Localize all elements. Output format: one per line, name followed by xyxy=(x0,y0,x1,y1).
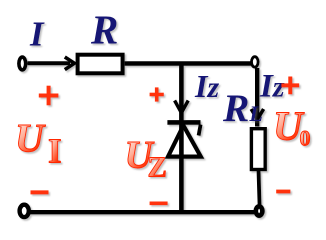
plus sign middle xyxy=(150,93,164,97)
current arrow I shaft xyxy=(28,61,71,65)
zener diode D triangle xyxy=(168,126,201,157)
svg-text:0: 0 xyxy=(300,126,311,151)
minus sign right xyxy=(276,190,290,194)
current arrow I head xyxy=(65,57,75,70)
resistor R box xyxy=(78,55,123,74)
plus sign right xyxy=(281,83,299,87)
zener bar tail xyxy=(199,125,201,136)
svg-text:I: I xyxy=(29,15,45,54)
svg-text:Z: Z xyxy=(148,151,167,183)
zener cathode bar xyxy=(167,120,200,125)
node bottom-right xyxy=(256,206,263,215)
plus sign left xyxy=(39,94,59,98)
current arrow Iz head (zener branch) xyxy=(175,101,189,113)
output terminal bottom-left xyxy=(20,205,29,217)
wire right branch vertical xyxy=(255,68,259,127)
wire RL to bottom node xyxy=(259,171,260,207)
svg-text:I: I xyxy=(48,132,62,171)
input terminal top-left xyxy=(19,57,26,70)
svg-text:U: U xyxy=(15,116,46,161)
svg-text:Iz: Iz xyxy=(259,69,285,105)
wire bottom xyxy=(30,210,255,214)
node top-right xyxy=(252,57,259,67)
wire top (R to node) xyxy=(125,61,251,66)
svg-text:R: R xyxy=(90,7,118,53)
load resistor RL box xyxy=(251,129,265,170)
minus sign middle xyxy=(150,202,168,206)
svg-text:Iz: Iz xyxy=(194,68,219,104)
minus sign left xyxy=(31,190,49,194)
wire zener branch vertical xyxy=(179,64,184,213)
current arrow Iz head (load branch) xyxy=(251,109,263,119)
